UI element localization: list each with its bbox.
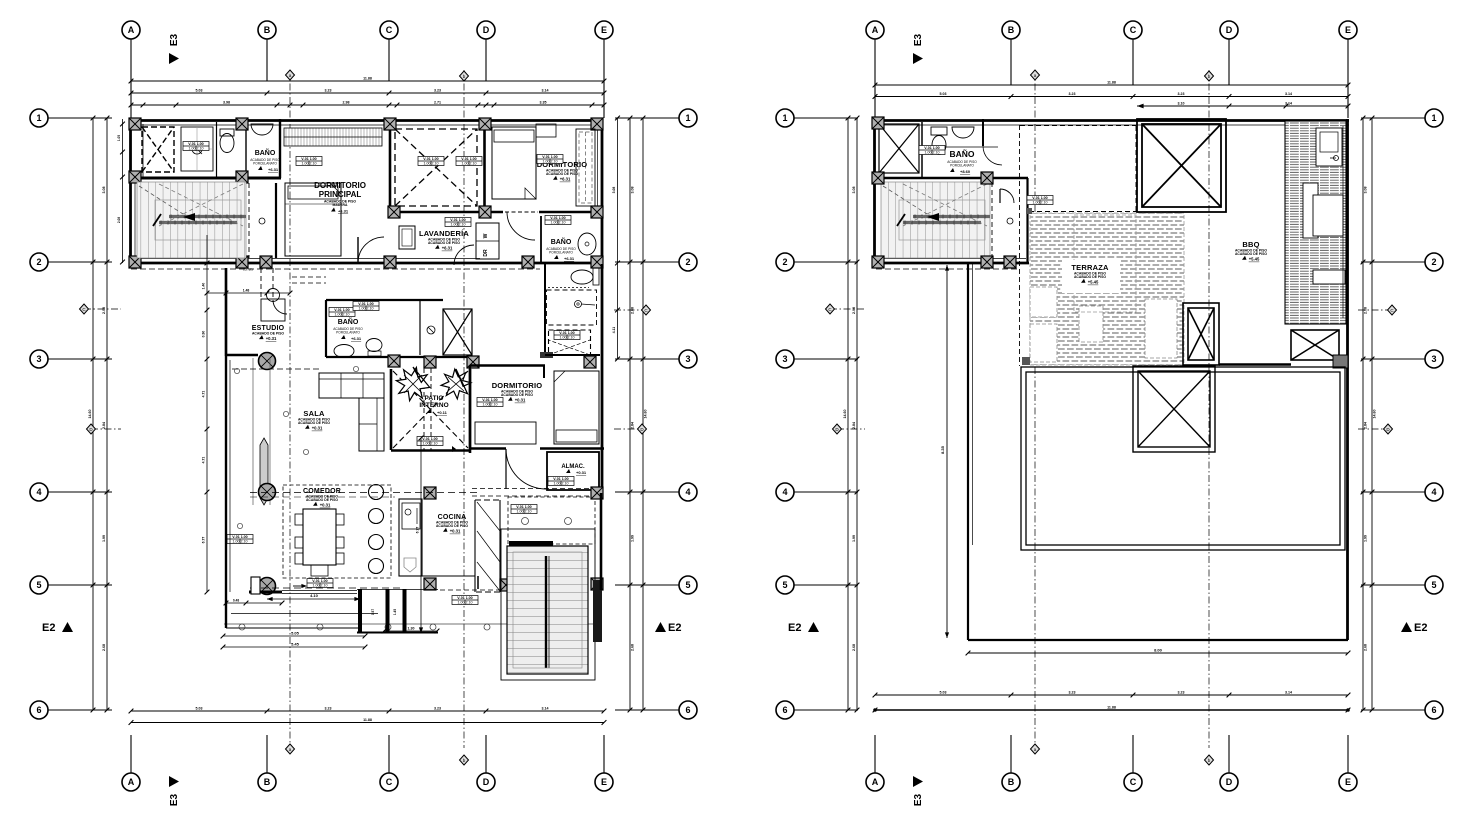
row 5 left leader line <box>794 584 858 586</box>
dorm2 label <box>537 160 588 182</box>
roof hall fixture <box>1007 218 1013 224</box>
svg-text:E2: E2 <box>1414 622 1427 634</box>
sala sofa L-shape <box>319 373 384 398</box>
svg-text:+0.31: +0.31 <box>450 529 461 534</box>
row 2 wall <box>129 262 603 265</box>
svg-text:ACABADO DE PISO: ACABADO DE PISO <box>1235 252 1267 256</box>
secondary axis bottom diamonds <box>286 744 295 754</box>
svg-text:A: A <box>872 777 879 787</box>
right vertical dimension chain inner <box>1362 118 1364 710</box>
axis B bottom circle <box>1002 773 1020 791</box>
svg-text:1.99: 1.99 <box>102 535 106 542</box>
axis A bottom leader line <box>130 735 132 773</box>
svg-text:3.08: 3.08 <box>102 187 106 194</box>
wall bath1/dormitorio <box>279 119 281 178</box>
svg-text:ACABADO DE PISO: ACABADO DE PISO <box>428 241 460 245</box>
bath2 sink <box>578 233 596 255</box>
terraza inset 4 <box>1074 215 1136 312</box>
svg-text:1.00 2.10: 1.00 2.10 <box>462 161 477 165</box>
terraza inset 2 <box>1030 324 1057 362</box>
svg-text:B: B <box>264 777 271 787</box>
stair landing outline <box>899 200 985 240</box>
row 6 left circle <box>776 701 794 719</box>
svg-text:8.00: 8.00 <box>1154 648 1163 653</box>
svg-text:2.68: 2.68 <box>852 644 856 651</box>
stair treads upper flight <box>881 182 990 258</box>
column E-mid <box>591 206 603 218</box>
stair direction arrow <box>927 213 939 221</box>
svg-text:+5.45: +5.45 <box>1249 257 1260 262</box>
axis D top circle <box>1220 21 1238 39</box>
estudio desk <box>261 299 285 321</box>
svg-text:V-01 1.00: V-01 1.00 <box>232 535 247 539</box>
column C1 <box>384 118 396 130</box>
column A1 <box>129 118 141 130</box>
axis B bottom leader line <box>266 735 268 773</box>
section line D right stub <box>1358 428 1388 430</box>
right inner dim chain x618 rows1-3 <box>617 118 619 359</box>
svg-text:3.08: 3.08 <box>852 187 856 194</box>
stair handrail upper <box>913 215 990 218</box>
cocina tag <box>511 505 537 514</box>
terraza inset 3 <box>1145 299 1177 358</box>
svg-text:2.71: 2.71 <box>434 101 441 105</box>
svg-text:3: 3 <box>36 354 41 364</box>
svg-text:1.00 2.10: 1.00 2.10 <box>554 481 569 485</box>
svg-text:B: B <box>1008 25 1015 35</box>
lavanderia washer dryer <box>476 223 499 259</box>
secondary axis top diamonds <box>286 70 295 80</box>
row 1 right leader line <box>1361 117 1425 119</box>
roof outer wall right <box>1346 119 1349 640</box>
svg-text:V-01 1.00: V-01 1.00 <box>312 579 327 583</box>
svg-text:1: 1 <box>782 113 787 123</box>
right vertical dimension chain outer <box>1371 118 1373 710</box>
svg-text:V-01 1.00: V-01 1.00 <box>188 142 203 146</box>
svg-text:6: 6 <box>685 705 690 715</box>
row 5 left circle <box>776 576 794 594</box>
row 4 right leader line <box>615 491 679 493</box>
row 6 left leader line <box>794 709 858 711</box>
svg-text:V-01 1.00: V-01 1.00 <box>422 437 437 441</box>
svg-text:3.14: 3.14 <box>1285 92 1292 96</box>
bottom per-bay dimension line <box>875 694 1348 696</box>
svg-text:1.00 2.10: 1.00 2.10 <box>424 161 439 165</box>
svg-text:5.03: 5.03 <box>196 89 203 93</box>
row 2 left circle <box>30 253 48 271</box>
stair cross brace dashed <box>159 184 243 226</box>
bath1 toilet <box>220 134 234 153</box>
svg-text:3.23: 3.23 <box>1069 92 1076 96</box>
svg-text:W: W <box>483 233 489 238</box>
row 6 right leader line <box>1361 709 1425 711</box>
column row5 c2 <box>424 578 436 590</box>
round column row4 <box>259 484 276 501</box>
patio bottom wall <box>391 449 470 452</box>
svg-text:1.00 2.10: 1.00 2.10 <box>560 335 575 339</box>
row 2 right circle <box>1425 253 1443 271</box>
bath2 shower <box>547 290 597 325</box>
secondary axis top diamonds <box>1031 70 1040 80</box>
svg-text:3.14: 3.14 <box>542 707 549 711</box>
lavanderia label <box>419 229 469 251</box>
svg-text:3.23: 3.23 <box>1178 92 1185 96</box>
svg-text:+0.31: +0.31 <box>515 398 526 403</box>
stair handrail upper <box>169 215 246 218</box>
roof mid X-box tall <box>1183 303 1219 365</box>
svg-text:1.48: 1.48 <box>243 289 250 293</box>
svg-text:1.00 2.10: 1.00 2.10 <box>359 306 374 310</box>
row 1 right circle <box>679 109 697 127</box>
svg-text:3: 3 <box>685 354 690 364</box>
svg-text:3: 3 <box>782 354 787 364</box>
inner small dim y293 <box>207 292 290 294</box>
svg-text:5: 5 <box>1431 580 1436 590</box>
row 6 right leader line <box>615 709 679 711</box>
deck circles <box>239 624 245 630</box>
svg-text:V-01 1.00: V-01 1.00 <box>450 218 465 222</box>
section marker E2 right <box>1401 622 1427 634</box>
svg-text:A: A <box>128 25 135 35</box>
svg-text:C: C <box>386 777 393 787</box>
svg-text:14.60: 14.60 <box>1373 410 1377 419</box>
axis B top circle <box>1002 21 1020 39</box>
roof bath toilet <box>932 136 946 155</box>
svg-text:PORCELANATO: PORCELANATO <box>336 331 360 335</box>
svg-text:V-01 1.00: V-01 1.00 <box>358 302 373 306</box>
dorm principal tag <box>296 157 322 166</box>
row 2 right leader line <box>1361 261 1425 263</box>
svg-text:3: 3 <box>1431 354 1436 364</box>
svg-text:14.60: 14.60 <box>644 410 648 419</box>
top partial dimension line <box>1137 105 1348 107</box>
svg-text:BAÑO: BAÑO <box>551 237 572 246</box>
row 1 right leader line <box>615 117 679 119</box>
svg-text:2.84: 2.84 <box>631 422 635 429</box>
svg-text:4: 4 <box>685 487 690 497</box>
svg-text:2: 2 <box>685 257 690 267</box>
dim small y603 <box>226 602 282 604</box>
row 5 right leader line <box>1361 584 1425 586</box>
section line C left stub <box>84 308 121 310</box>
kitchen bottom wall <box>399 575 475 577</box>
column bath-mid <box>236 171 248 183</box>
comedor tag <box>307 579 333 588</box>
svg-text:B: B <box>264 25 271 35</box>
axis C top leader line <box>1132 39 1134 85</box>
svg-text:11.88: 11.88 <box>1107 706 1116 710</box>
bath3 toilet <box>366 339 382 352</box>
lower terrace circles <box>522 518 529 525</box>
svg-text:1.00 2.10: 1.00 2.10 <box>517 509 532 513</box>
bath1 tag <box>183 142 209 151</box>
row 3 left circle <box>30 350 48 368</box>
roof bath vanity line <box>922 146 998 148</box>
svg-text:5.03: 5.03 <box>940 92 947 96</box>
bath2 corridor tag <box>545 216 571 225</box>
stair2 rail <box>545 556 547 668</box>
svg-text:2.84: 2.84 <box>1364 422 1368 429</box>
axis B top leader line <box>266 39 268 81</box>
svg-text:V-01 1.00: V-01 1.00 <box>423 157 438 161</box>
svg-text:D: D <box>1226 777 1233 787</box>
closet hatch dorm principal <box>284 128 382 146</box>
axis E top circle <box>1339 21 1357 39</box>
roof shaft X-box top <box>1137 119 1226 212</box>
stair handrail lower <box>159 221 237 224</box>
section marker E2 right <box>655 622 681 634</box>
column D-mid <box>479 206 491 218</box>
svg-text:cor sfs: cor sfs <box>243 268 253 272</box>
svg-text:3.23: 3.23 <box>1069 691 1076 695</box>
bath2 toilet <box>571 270 593 284</box>
kitchen lower dashed <box>440 589 501 591</box>
svg-text:+6.31: +6.31 <box>338 209 349 214</box>
axis D bottom circle <box>1220 773 1238 791</box>
svg-text:2.08: 2.08 <box>102 307 106 314</box>
top per-bay dimension line <box>875 96 1348 98</box>
svg-text:6.77: 6.77 <box>202 537 206 544</box>
svg-text:4.10: 4.10 <box>310 593 319 598</box>
svg-text:0.57: 0.57 <box>371 609 375 615</box>
svg-text:ACABADO DE PISO: ACABADO DE PISO <box>252 332 284 336</box>
axis C bottom leader line <box>1132 735 1134 773</box>
patio right wall <box>469 369 472 453</box>
svg-text:3.08: 3.08 <box>612 187 616 194</box>
row 2 right circle <box>679 253 697 271</box>
column stair2 <box>236 256 248 268</box>
svg-text:3.23: 3.23 <box>434 707 441 711</box>
outer wall right rows3-4 <box>601 368 604 493</box>
roof X-box right <box>1291 330 1339 360</box>
terraza inset 1 <box>1030 287 1057 317</box>
axis A bottom circle <box>122 773 140 791</box>
bottom per-bay dimension line <box>131 710 604 712</box>
roof floor dashed line <box>876 268 1020 270</box>
estudio left wall <box>225 268 227 356</box>
roof big X-box mid <box>1133 366 1215 452</box>
svg-text:1.45: 1.45 <box>393 609 397 615</box>
left vertical dimension chain outer <box>92 118 94 710</box>
svg-text:11.88: 11.88 <box>363 77 372 81</box>
svg-text:3.35: 3.35 <box>540 101 547 105</box>
svg-text:5: 5 <box>685 580 690 590</box>
svg-text:1.00 2.10: 1.00 2.10 <box>458 600 473 604</box>
svg-text:PORCELANATO: PORCELANATO <box>549 251 573 255</box>
dorm3 left wall <box>469 365 471 449</box>
top sub dimension line <box>131 104 604 106</box>
stair cross brace dashed <box>903 184 987 226</box>
svg-text:E2: E2 <box>668 622 681 634</box>
svg-text:11.88: 11.88 <box>1107 81 1116 85</box>
stair up dashed guide <box>139 186 183 214</box>
svg-text:1.00 2.10: 1.00 2.10 <box>302 161 317 165</box>
svg-text:6: 6 <box>1431 705 1436 715</box>
row 2 right leader line <box>615 261 679 263</box>
roof outer wall top <box>873 119 1349 122</box>
svg-text:3.10: 3.10 <box>1178 102 1185 106</box>
wall black bar right <box>593 580 602 642</box>
svg-text:V-01 1.00: V-01 1.00 <box>553 477 568 481</box>
bath3 tags <box>329 308 355 317</box>
section marker E2 left <box>788 622 819 634</box>
svg-text:E3: E3 <box>169 33 180 46</box>
comedor label <box>303 488 341 508</box>
kitchen counter <box>399 499 422 576</box>
section line D left stub <box>837 428 865 430</box>
row 6 left circle <box>30 701 48 719</box>
right vertical dimension chain inner <box>629 118 631 710</box>
axis D bottom circle <box>477 773 495 791</box>
lower terrace dashed rect <box>508 497 595 544</box>
svg-text:2.98: 2.98 <box>343 101 350 105</box>
sala ceiling dashed edge <box>232 368 322 370</box>
svg-text:+6.31: +6.31 <box>442 246 453 251</box>
svg-text:ACABADO DE PISO: ACABADO DE PISO <box>306 498 338 502</box>
svg-text:1.99: 1.99 <box>852 535 856 542</box>
svg-text:E3: E3 <box>169 793 180 806</box>
svg-text:14.60: 14.60 <box>88 410 92 419</box>
column A-mid <box>129 171 141 183</box>
left vertical dimension chain inner <box>856 118 858 710</box>
svg-text:2.68: 2.68 <box>1364 644 1368 651</box>
top overall dimension line <box>875 84 1348 86</box>
section line C right stub <box>1358 309 1392 311</box>
roof bath bottom wall <box>873 177 1028 180</box>
svg-text:2.08: 2.08 <box>117 217 121 223</box>
svg-text:1.99: 1.99 <box>631 535 635 542</box>
svg-text:0.48: 0.48 <box>233 599 239 603</box>
axis C top circle <box>380 21 398 39</box>
secondary axis bottom diamonds <box>1031 744 1040 754</box>
axis B top circle <box>258 21 276 39</box>
svg-text:5: 5 <box>36 580 41 590</box>
shaft X-box top-left <box>142 127 174 172</box>
dim 4.10 line <box>267 598 360 600</box>
bbq hatch strip <box>1285 121 1346 324</box>
row 2 left leader line <box>794 261 858 263</box>
almacen door arc <box>506 449 546 489</box>
inner vertical dim chain x207 <box>206 235 208 592</box>
svg-text:6: 6 <box>782 705 787 715</box>
svg-text:8.35: 8.35 <box>940 445 945 454</box>
svg-text:E: E <box>601 777 607 787</box>
svg-text:1: 1 <box>1431 113 1436 123</box>
axis E top circle <box>595 21 613 39</box>
svg-text:DORMITORIO: DORMITORIO <box>314 181 366 190</box>
axis E bottom leader line <box>603 735 605 773</box>
hall door dashed <box>248 183 250 258</box>
patio tag <box>417 437 443 446</box>
svg-text:3.08: 3.08 <box>1364 187 1368 194</box>
bath1 bottom wall <box>129 177 281 180</box>
bath2 wall left <box>540 216 542 264</box>
wall divider shower <box>216 122 218 178</box>
lavanderia tag <box>445 218 471 227</box>
stair landing outline <box>155 200 241 240</box>
column E2c <box>591 256 603 268</box>
row 4 left circle <box>776 483 794 501</box>
svg-text:V-01 1.00: V-01 1.00 <box>334 308 349 312</box>
left plan building <box>117 116 620 680</box>
svg-text:1.00 2.10: 1.00 2.10 <box>451 222 466 226</box>
svg-text:C: C <box>1130 25 1137 35</box>
right plan building <box>872 117 1350 655</box>
svg-text:3.14: 3.14 <box>1285 691 1292 695</box>
corridor dashed lines <box>292 276 326 278</box>
lavanderia tub <box>399 226 415 249</box>
svg-text:E: E <box>1345 777 1351 787</box>
svg-text:1.99: 1.99 <box>1364 535 1368 542</box>
svg-text:3.14: 3.14 <box>542 89 549 93</box>
almacen tag <box>548 477 574 486</box>
svg-text:V-01 1.00: V-01 1.00 <box>461 157 476 161</box>
bath1 sink <box>251 124 273 135</box>
svg-text:2.84: 2.84 <box>852 422 856 429</box>
shaft tags <box>418 157 444 166</box>
terrace step piers <box>358 589 362 632</box>
svg-text:2: 2 <box>782 257 787 267</box>
downlight circles <box>234 368 239 373</box>
svg-text:1.00 2.10: 1.00 2.10 <box>1033 200 1048 204</box>
terraza hatch corner block <box>1026 208 1032 214</box>
svg-text:1.05: 1.05 <box>117 135 121 141</box>
dim bottom-left 5.05 <box>223 635 365 637</box>
row 1 left circle <box>776 109 794 127</box>
kitchen lower area wall <box>477 576 479 589</box>
svg-text:1.40: 1.40 <box>202 283 206 290</box>
bbq counter notch 3 <box>1313 270 1345 284</box>
axis A top circle <box>122 21 140 39</box>
roof block bottom wall <box>873 262 1029 265</box>
svg-text:+0.31: +0.31 <box>320 503 331 508</box>
dorm3 label <box>492 381 543 403</box>
svg-text:ACABADO DE PISO: ACABADO DE PISO <box>298 421 330 425</box>
axis C bottom circle <box>1124 773 1142 791</box>
patio left wall <box>390 369 393 450</box>
svg-text:+0.11: +0.11 <box>437 410 448 415</box>
stair2 black bar <box>509 541 553 546</box>
terraza corner block <box>1022 357 1030 365</box>
row 4 left leader line <box>794 491 858 493</box>
section marker E3 bottom <box>913 776 924 806</box>
svg-text:D: D <box>483 25 490 35</box>
row 6 right circle <box>679 701 697 719</box>
row 5 right circle <box>679 576 697 594</box>
kitchen lower tag <box>452 596 478 605</box>
roof bath divider right <box>982 119 984 146</box>
column E1 <box>591 118 603 130</box>
round column row3 <box>259 353 276 370</box>
column stair top-left <box>500 579 512 591</box>
row 3 right circle <box>1425 350 1443 368</box>
svg-text:V-01 1.00: V-01 1.00 <box>482 398 497 402</box>
bbq sink box <box>1316 128 1342 166</box>
row 6 left leader line <box>48 709 112 711</box>
svg-text:4.71: 4.71 <box>202 457 206 464</box>
axis E bottom leader line <box>1347 735 1349 773</box>
axis C bottom circle <box>380 773 398 791</box>
left vertical dimension chain inner <box>106 118 108 710</box>
svg-text:INTERNO: INTERNO <box>419 402 448 409</box>
svg-text:DR: DR <box>483 249 489 257</box>
column row3 c3 <box>467 356 479 368</box>
roof dark square <box>1333 355 1348 368</box>
terraza label <box>1062 260 1120 293</box>
svg-text:V-01 1.00: V-01 1.00 <box>550 216 565 220</box>
svg-text:4.11: 4.11 <box>612 327 616 334</box>
svg-text:B: B <box>1008 777 1015 787</box>
